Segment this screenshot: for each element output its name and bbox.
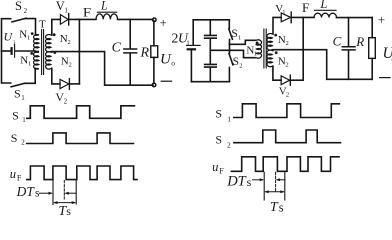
dimension line Ts left end bbox=[75, 181, 77, 205]
wire S1 to transformer bbox=[25, 68, 36, 83]
wire V2 to junction bbox=[69, 83, 79, 85]
inductor L bbox=[96, 14, 118, 20]
capacitor upper half-bridge bbox=[209, 20, 211, 35]
waveform S1 right bbox=[234, 104, 340, 118]
transformer T secondary N2 upper winding bbox=[46, 35, 52, 52]
svg-text:1: 1 bbox=[238, 35, 241, 42]
node output minus terminal bbox=[152, 83, 156, 87]
wire L to output right bbox=[337, 17, 373, 19]
waveform S2 left bbox=[27, 133, 134, 144]
polarity dot right N2 lower bbox=[275, 51, 278, 54]
svg-text:S: S bbox=[11, 131, 18, 145]
arrow DTs right bbox=[253, 179, 263, 181]
resistor R right bbox=[371, 18, 373, 38]
svg-text:S: S bbox=[15, 0, 22, 13]
svg-text:U: U bbox=[4, 30, 14, 44]
polarity dot N1 upper bbox=[31, 32, 34, 35]
dimension line DTs right start bbox=[263, 172, 265, 200]
wire junction V1-V2 cathodes bbox=[78, 19, 80, 84]
wire L to output plus node bbox=[118, 18, 153, 20]
wire junction right V1-V2 bbox=[302, 17, 304, 80]
svg-text:T: T bbox=[270, 200, 279, 215]
switch S1 right bbox=[228, 20, 230, 29]
svg-text:o: o bbox=[171, 58, 175, 67]
transformer right secondary N2 upper winding bbox=[267, 34, 273, 51]
svg-text:U: U bbox=[160, 51, 172, 67]
node output plus terminal bbox=[153, 18, 157, 22]
svg-text:2: 2 bbox=[239, 62, 242, 69]
svg-text:L: L bbox=[100, 0, 108, 13]
arrow Ts left bbox=[55, 202, 75, 204]
wire left input bus bbox=[2, 19, 11, 83]
polarity dot right N1 bbox=[256, 42, 259, 45]
svg-text:S: S bbox=[215, 132, 222, 146]
resistor R bbox=[153, 21, 155, 46]
minus sign left output bbox=[161, 80, 171, 82]
svg-text:2: 2 bbox=[68, 39, 71, 46]
svg-text:s: s bbox=[66, 204, 71, 217]
capacitor C right bbox=[348, 18, 350, 46]
wire V1 to L bbox=[69, 18, 96, 20]
svg-text:s: s bbox=[279, 200, 284, 214]
wire capacitor midpoint to primary bbox=[210, 50, 255, 57]
arrow Ts right bbox=[266, 191, 284, 193]
waveform uF right bbox=[231, 157, 339, 172]
arrow DTs left bbox=[40, 192, 52, 194]
svg-text:i: i bbox=[13, 39, 15, 47]
svg-text:2: 2 bbox=[286, 40, 289, 47]
wire secondary bottom lead bbox=[52, 68, 60, 84]
wire V1 to L right bbox=[291, 16, 314, 18]
transformer T secondary N2 lower winding bbox=[46, 52, 52, 69]
svg-text:2: 2 bbox=[286, 92, 289, 99]
svg-text:L: L bbox=[319, 0, 327, 11]
minus sign right output bbox=[380, 77, 390, 79]
svg-text:DT: DT bbox=[16, 184, 36, 199]
dimension line DTs left start bbox=[52, 181, 54, 205]
svg-text:2: 2 bbox=[24, 7, 28, 15]
svg-text:+: + bbox=[160, 15, 167, 30]
inductor L right bbox=[314, 13, 337, 17]
switch S2 bbox=[12, 18, 26, 22]
arrow DTs left right side bbox=[66, 192, 76, 194]
transformer T primary N1 upper winding bbox=[34, 35, 39, 52]
svg-text:1: 1 bbox=[254, 51, 257, 58]
wire switch midpoint bbox=[230, 40, 255, 44]
svg-text:DT: DT bbox=[226, 174, 246, 190]
capacitor C bbox=[129, 19, 131, 48]
transformer right primary N1 winding bbox=[255, 40, 262, 58]
svg-text:2: 2 bbox=[21, 139, 25, 147]
battery 2Ui right bbox=[192, 20, 194, 45]
dimension line DTs left end dashed bbox=[63, 181, 65, 200]
svg-text:F: F bbox=[302, 0, 309, 15]
svg-text:R: R bbox=[355, 34, 364, 49]
svg-text:1: 1 bbox=[186, 39, 190, 47]
svg-text:2: 2 bbox=[69, 62, 72, 69]
waveform S1 left bbox=[27, 106, 134, 119]
svg-text:2: 2 bbox=[64, 98, 68, 106]
svg-text:R: R bbox=[140, 46, 150, 61]
dimension line DTs right end dashed bbox=[275, 172, 277, 192]
battery Ui bbox=[2, 50, 11, 52]
svg-text:1: 1 bbox=[27, 35, 30, 42]
svg-text:S: S bbox=[14, 86, 21, 100]
arrow DTs right inner bbox=[278, 179, 285, 181]
svg-text:C: C bbox=[333, 34, 342, 49]
svg-text:1: 1 bbox=[22, 116, 26, 124]
polarity dot right N2 upper bbox=[274, 34, 277, 37]
diode V1 bbox=[60, 15, 68, 25]
svg-text:+: + bbox=[378, 12, 385, 27]
svg-text:u: u bbox=[212, 160, 218, 174]
wire V2 to junction right bbox=[290, 79, 303, 81]
svg-text:T: T bbox=[39, 18, 46, 30]
svg-text:F: F bbox=[219, 166, 224, 175]
svg-text:S: S bbox=[233, 56, 239, 68]
svg-text:1: 1 bbox=[21, 94, 25, 102]
transformer T core bbox=[42, 30, 44, 75]
waveform uF left bbox=[27, 166, 137, 180]
svg-text:2: 2 bbox=[285, 62, 288, 69]
wire right secondary bottom lead bbox=[273, 66, 281, 80]
svg-text:F: F bbox=[83, 5, 91, 20]
transformer T primary N1 lower winding bbox=[34, 52, 39, 69]
transformer right secondary N2 lower winding bbox=[267, 50, 273, 67]
wire right bottom rail bbox=[191, 81, 229, 83]
capacitor lower half-bridge bbox=[209, 50, 211, 63]
svg-text:1: 1 bbox=[282, 9, 285, 16]
polarity dot N2 lower bbox=[53, 51, 56, 54]
svg-text:F: F bbox=[17, 174, 22, 183]
svg-text:S: S bbox=[12, 109, 19, 123]
svg-text:1: 1 bbox=[64, 7, 68, 15]
polarity dot N2 upper bbox=[53, 33, 56, 36]
wire right top rail bbox=[193, 19, 229, 21]
svg-text:s: s bbox=[35, 188, 40, 200]
wire right secondary top lead bbox=[273, 17, 281, 34]
waveform S2 right bbox=[234, 130, 341, 143]
switch S1 bbox=[11, 83, 25, 87]
dimension line Ts right end bbox=[284, 172, 286, 200]
wire secondary centre tap to bottom rail bbox=[53, 52, 154, 86]
svg-text:s: s bbox=[247, 175, 252, 189]
svg-text:2: 2 bbox=[227, 140, 231, 149]
svg-text:1: 1 bbox=[227, 114, 231, 123]
wire secondary top lead bbox=[52, 19, 61, 35]
polarity dot N1 lower bbox=[30, 52, 33, 55]
diode V2 right bbox=[281, 76, 290, 85]
svg-text:S: S bbox=[231, 28, 237, 40]
svg-text:u: u bbox=[10, 167, 16, 181]
wire S2 to transformer bbox=[26, 19, 36, 36]
switch S2 right bbox=[229, 44, 231, 53]
diode V1 right bbox=[281, 13, 290, 22]
wire right centre tap to bottom bbox=[274, 50, 373, 80]
svg-text:S: S bbox=[215, 106, 222, 120]
svg-text:C: C bbox=[112, 40, 122, 55]
svg-text:1: 1 bbox=[28, 61, 31, 68]
diode V2 bbox=[60, 79, 69, 88]
transformer right core bbox=[264, 29, 266, 68]
